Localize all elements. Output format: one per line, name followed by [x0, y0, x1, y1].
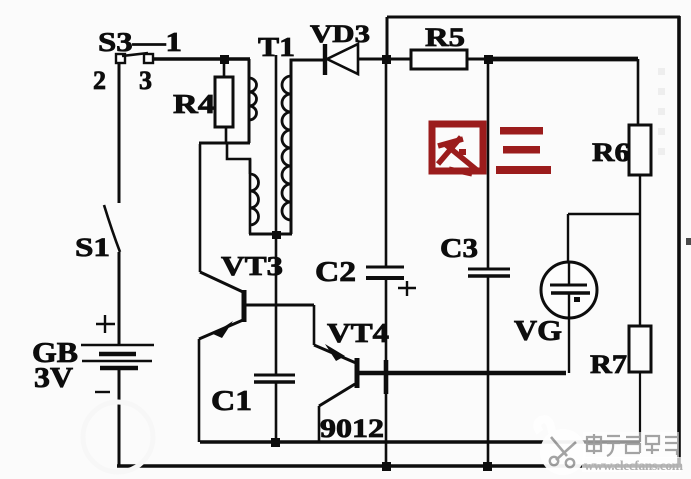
wire R6 lead top — [637, 59, 640, 125]
capacitor C1 plate bottom — [254, 380, 295, 384]
resistor R4 lead bottom — [225, 127, 228, 144]
label R6 — [592, 138, 630, 167]
node C1 bottom junction dot — [271, 438, 280, 447]
node B junction dot — [382, 55, 391, 64]
watermark right edge column — [658, 68, 665, 155]
battery plus sign — [96, 315, 115, 333]
svg-text:R5: R5 — [425, 23, 465, 52]
svg-text:3V: 3V — [34, 363, 73, 394]
svg-text:C1: C1 — [211, 386, 252, 417]
resistor R4 — [215, 77, 233, 127]
battery plate short thick lower — [100, 366, 138, 371]
svg-text:3: 3 — [139, 66, 152, 95]
diode VD3 cathode bar — [323, 44, 327, 75]
transformer T1 core line — [275, 55, 278, 234]
switch S3-1 terminal 2 — [116, 54, 125, 63]
transistor VT4 collector diagonal — [319, 384, 355, 406]
transformer T1 primary lower winding — [250, 159, 259, 234]
resistor R7 — [629, 326, 651, 372]
capacitor C3 plate top — [468, 268, 510, 271]
transistor VT4 emitter diagonal — [314, 344, 356, 363]
label 9012 — [320, 414, 384, 443]
wire core node down to C1 — [275, 236, 278, 375]
switch S3-1 terminal 3 — [144, 54, 153, 63]
transformer T1 secondary winding — [282, 76, 291, 220]
wire thick top to R6 — [488, 57, 638, 62]
label R7 — [590, 350, 627, 379]
wire right border rail — [677, 16, 681, 467]
transformer T1 secondary top lead — [291, 60, 323, 234]
capacitor C3 lead top — [487, 59, 490, 269]
node T1 bottom junction dot — [272, 231, 281, 239]
label VG — [514, 316, 562, 347]
neon lamp VG gas dot — [574, 297, 580, 302]
wire VG gate branch — [568, 214, 640, 262]
transistor VT4 base wire thick to VG — [357, 371, 566, 375]
capacitor C3 plate bottom — [468, 274, 510, 278]
resistor R4 lead top — [223, 60, 226, 77]
transistor VT3 emitter diagonal — [199, 320, 243, 339]
battery minus sign — [95, 391, 110, 393]
wire winding bottom bar — [249, 233, 292, 236]
watermark faint circle bottom left — [83, 402, 153, 472]
svg-text:VG: VG — [514, 316, 562, 347]
label VD3 — [310, 21, 370, 48]
svg-text:VD3: VD3 — [310, 21, 370, 48]
transistor VT4 collector wire — [318, 406, 321, 442]
wire VD3 to node B — [358, 58, 411, 61]
svg-text:2: 2 — [93, 66, 106, 95]
watermark www.elecfans.com — [582, 457, 684, 473]
svg-text:R7: R7 — [590, 350, 627, 379]
svg-text:R4: R4 — [173, 89, 215, 119]
transformer T1 primary upper winding drop — [248, 59, 251, 143]
wire C2 to bottom border — [385, 278, 388, 466]
figure title red character tu — [432, 124, 483, 174]
transformer T1 primary upper winding — [249, 78, 257, 120]
label GB — [32, 338, 78, 369]
wire top border rail — [387, 16, 680, 19]
node C junction dot — [484, 55, 493, 64]
svg-text:T1: T1 — [258, 32, 295, 62]
watermark chinese text blocks — [583, 432, 679, 458]
svg-text:C2: C2 — [315, 257, 356, 288]
label C2 — [315, 257, 356, 288]
watermark scissors logo — [537, 419, 586, 475]
wire terminal3 to node A — [153, 57, 250, 61]
wire R7 to bottom inner rail — [639, 372, 641, 442]
label 3V — [34, 363, 73, 394]
neon lamp VG electrode bottom — [551, 291, 590, 295]
label R4 — [173, 89, 215, 119]
neon lamp VG electrode top — [550, 284, 587, 287]
wire bottom inner rail — [200, 440, 640, 444]
battery GB plate long top — [81, 344, 154, 347]
svg-text:VT3: VT3 — [221, 251, 283, 281]
node C2 base junction — [384, 360, 389, 394]
capacitor C2 plus sign — [398, 281, 416, 296]
label pin 3 — [139, 66, 152, 95]
wire R6 to R7 — [639, 175, 641, 326]
switch S3-1 bridge contact — [122, 53, 148, 56]
svg-text:S1: S1 — [75, 233, 110, 262]
diode VD3 triangle — [327, 44, 358, 74]
svg-text:www.elecfans.com: www.elecfans.com — [584, 458, 684, 473]
transistor VT3 base bar — [242, 290, 247, 322]
node A junction dot — [220, 55, 229, 64]
battery plate short thick — [99, 352, 136, 357]
label S1 — [75, 233, 110, 262]
label S3-1 — [98, 27, 182, 57]
label VT3 — [221, 251, 283, 281]
transistor VT3 base wire — [244, 304, 314, 307]
figure title red character san — [496, 127, 551, 174]
wire C3 to bottom border — [487, 276, 490, 466]
svg-text:S3—1: S3—1 — [98, 27, 182, 57]
neon lamp VG top lead — [568, 262, 570, 285]
resistor R5 — [411, 50, 467, 69]
node C2 bottom junction dot — [382, 462, 391, 471]
svg-text:R6: R6 — [592, 138, 630, 167]
capacitor C2 lead top — [385, 59, 388, 267]
wire top border drop to VD3 node — [386, 17, 389, 59]
neon lamp VG envelope — [541, 262, 597, 318]
label VT4 — [327, 318, 389, 348]
label pin 2 — [93, 66, 106, 95]
capacitor C2 plate top — [366, 266, 404, 269]
wire bottom border rail — [117, 464, 680, 468]
svg-text:9012: 9012 — [320, 414, 384, 443]
wire S1 to battery — [118, 252, 121, 345]
label R5 — [425, 23, 465, 52]
transistor VT4 emitter wire from VT3 base — [313, 305, 316, 345]
capacitor C1 plate top — [254, 374, 295, 377]
switch S1 blade — [104, 205, 120, 252]
battery plate long lower — [82, 360, 152, 363]
wire R5 to node C — [467, 58, 489, 61]
svg-text:C3: C3 — [440, 233, 478, 263]
transistor VT3 emitter wire — [198, 339, 201, 442]
capacitor C2 plate bottom — [366, 276, 404, 280]
transistor VT3 collector wire — [199, 144, 202, 272]
svg-text:VT4: VT4 — [327, 318, 389, 348]
node C3 bottom junction dot — [483, 462, 492, 471]
stray mark right edge — [686, 238, 691, 245]
transistor VT4 base bar — [355, 358, 360, 388]
wire tap zigzag to lower winding — [227, 143, 250, 174]
wire battery to bottom rail — [118, 369, 121, 466]
label C3 — [440, 233, 478, 263]
resistor R6 — [629, 125, 651, 175]
wire tap bar — [199, 142, 250, 145]
wire C1 to bottom rail — [275, 382, 278, 442]
wire left rail top (terminal 2 down to S1) — [118, 62, 121, 203]
label T1 — [258, 32, 295, 62]
label C1 — [211, 386, 252, 417]
transistor VT3 collector diagonal — [200, 272, 243, 292]
wire VG bottom lead — [568, 293, 570, 373]
